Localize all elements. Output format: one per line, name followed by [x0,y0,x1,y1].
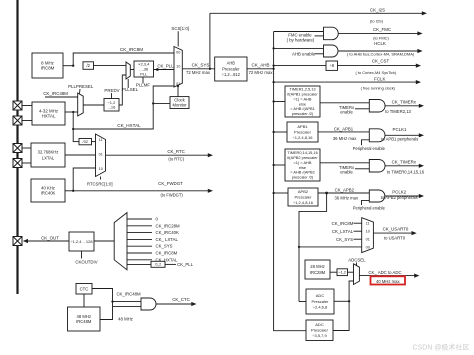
svg-text:CK_FMC: CK_FMC [373,27,391,32]
wire CKOUTDIV tick [81,251,83,259]
svg-text:CK_LXTAL: CK_LXTAL [332,229,354,234]
oscillator IRC8M 8 MHz [32,53,63,78]
svg-text:(to RTC): (to RTC) [168,157,184,162]
svg-text:Monitor: Monitor [173,102,188,107]
pad CK_OUT pin [13,237,22,246]
divider CKOUTDIV [69,232,94,251]
wire left pin bus [16,0,18,294]
svg-text:CK_APB2: CK_APB2 [335,187,355,192]
wire pad to HXTAL 1 [21,105,32,107]
wire CTC loop [92,289,113,320]
wire IRC40K out [65,190,73,192]
wire div to ADC mux [348,271,354,273]
gate AND APB1 [369,129,385,142]
node APB1 tap [272,131,274,133]
wire HCLK [338,50,419,52]
svg-text:Prescaler: Prescaler [295,194,313,199]
wire LXTAL out [65,154,96,156]
pad OSCOUT (HXTAL) [13,116,22,125]
svg-text:00: 00 [366,246,370,250]
svg-text:CK_HXTAL: CK_HXTAL [117,123,141,128]
mux ADCSEL [354,264,360,285]
svg-text:11: 11 [99,138,103,142]
wire pad to LXTAL 1 [21,147,31,149]
svg-text:32.768KHz: 32.768KHz [38,150,59,155]
svg-text:Prescaler: Prescaler [222,66,240,71]
pad OSCIN (HXTAL) [13,101,22,110]
svg-text:CK_IRC8M: CK_IRC8M [120,47,143,52]
svg-text:PCLK2: PCLK2 [392,189,406,194]
svg-text:to TIMER0,14,15,16: to TIMER0,14,15,16 [387,169,425,174]
svg-text:enable: enable [340,170,353,175]
wire irc48m gate stub2 [113,305,142,307]
node CK_APB2 junction [325,192,328,195]
wire clock monitor left link [153,102,170,104]
svg-text:AHB: AHB [227,61,236,66]
divider /32 [79,139,92,145]
mux PLLPRESEL [78,93,84,116]
svg-text:CK_FWDGT: CK_FWDGT [158,181,183,186]
svg-text:HXTAL: HXTAL [42,114,56,119]
wire ADC presc riser [349,281,353,301]
svg-text:to TIMER2,13: to TIMER2,13 [385,109,411,114]
oscillator LXTAL 32.768KHz [31,143,65,167]
svg-text:ADC: ADC [315,322,324,327]
svg-text:÷1,2,4,8,16: ÷1,2,4,8,16 [293,135,314,140]
oscillator IRC48M 48 MHz [68,307,101,331]
wire CK_I2S riser [209,13,211,69]
mux RTCSRC [96,134,106,177]
svg-text:10: 10 [99,167,103,171]
wire bus to div8 [274,65,326,67]
svg-text:LXTAL: LXTAL [42,155,55,160]
svg-text:SCS[1:0]: SCS[1:0] [171,26,189,31]
wire CK_FWDGT [73,190,209,192]
node HXTAL junction [72,111,74,113]
wire FCLK [274,81,417,83]
divider ADC Prescaler /2,4,6,8 [306,289,334,314]
svg-text:IRC8M: IRC8M [41,66,55,71]
svg-text:01: 01 [366,238,370,242]
highlight 40 MHz max [371,276,406,284]
svg-text:/32: /32 [83,139,88,144]
svg-text:CK_SYS: CK_SYS [336,237,353,242]
wire ckout stub CK_SYS [127,245,152,247]
svg-text:Peripheral enable: Peripheral enable [353,205,386,210]
wire stub usart 10 [354,230,362,232]
svg-text:÷1,2,4 .. 128: ÷1,2,4 .. 128 [70,239,93,244]
svg-text:CKOUTDIV: CKOUTDIV [75,260,97,265]
wire ckout stub CK_ LXTAL [127,238,152,240]
wire bus to TIMER1 logic [274,101,285,103]
svg-text:11: 11 [366,222,370,226]
svg-text:to APB1 peripherals: to APB1 peripherals [381,137,418,142]
wire CK_TIMERx to TIMER0 [385,165,420,167]
wire CK_RTC [106,154,210,156]
svg-text:CK_SYS: CK_SYS [192,62,210,67]
wire RTCSRC tick [100,177,102,180]
svg-text:prescaler /2): prescaler /2) [292,175,314,180]
wire TIMERx enable stub [355,108,369,110]
mux CKOUTSEL [114,213,127,270]
wire ckout pll dash [165,263,176,265]
wire stub usart 01 [354,238,362,240]
svg-text:(to I2S): (to I2S) [370,18,384,23]
svg-text:PLLSEL: PLLSEL [122,87,139,92]
svg-text:PCLK1: PCLK1 [393,127,407,132]
wire /2 to PLLSEL [94,65,127,67]
svg-text:to USART0: to USART0 [384,236,406,241]
wire ckout stub CK_HXTAL [127,259,152,261]
svg-text:CK_I2S: CK_I2S [370,8,385,13]
svg-text:CK_APB1: CK_APB1 [334,127,354,132]
svg-text:CK_IRC48M: CK_IRC48M [43,91,68,96]
svg-text:FCLK: FCLK [374,76,385,81]
divider /1,2 ckout [151,261,165,267]
node CK_I2S tap [209,68,211,70]
svg-text:IRC48M: IRC48M [76,319,92,324]
pad OSC32OUT (LXTAL) [13,159,22,168]
svg-text:00: 00 [176,51,180,55]
divider /2 [83,62,94,70]
wire IRC40K to RTC mux [73,168,95,191]
wire ADC prescaler out [334,300,349,302]
node ADC presc junction [348,300,350,302]
svg-text:HCLK: HCLK [374,41,386,46]
node CK_PLL junction [156,68,159,71]
svg-text:CK_ ADC to ADC: CK_ ADC to ADC [368,270,401,275]
pll PLL multiplier [134,61,154,77]
svg-text:CK_CTC: CK_CTC [172,297,190,302]
svg-text:01: 01 [99,152,103,156]
svg-text:PLLPRESEL: PLLPRESEL [68,84,94,89]
wire AHB distribution bus [274,32,306,331]
wire APB2 to ADC prescaler [299,301,306,303]
svg-text:CSDN @极术社区: CSDN @极术社区 [413,343,470,352]
node CST tap [272,64,274,66]
svg-text:( by hardware): ( by hardware) [287,38,315,43]
svg-text:IRC40K: IRC40K [41,190,56,195]
node clock monitor tap [152,102,154,104]
svg-text:to APB2 peripherals: to APB2 peripherals [381,195,418,200]
wire CK_APB2 to USART mux [299,246,362,248]
wire bus to FMC gate [274,31,324,33]
node IRC8M junction [72,65,74,67]
wire bus to TIMER0 logic [274,164,285,166]
wire CTC to IRC48M [83,294,85,307]
svg-text:CK_IRC8M: CK_IRC8M [332,221,354,226]
wire peripheral enable APB2 [362,200,370,205]
wire /32 to RTC mux [92,141,96,143]
svg-text:÷1,2: ÷1,2 [338,270,346,275]
wire stub usart 11 [354,222,362,224]
svg-text:APB1: APB1 [297,124,308,129]
wire CK_OUT to pad [27,240,69,242]
wire CKOUT mux to div [94,240,114,242]
svg-text:APB2: APB2 [298,189,309,194]
wire HXTAL down branch [72,112,74,142]
mux SCS system clock switch [174,47,182,88]
wire HXTAL output [65,111,78,113]
svg-text:(to FMC): (to FMC) [373,35,389,40]
svg-text:IRC28M: IRC28M [310,270,326,275]
svg-text:÷3,5,7,9: ÷3,5,7,9 [312,333,327,338]
svg-text:01: 01 [176,82,180,86]
svg-text:÷1,2,4,8,16: ÷1,2,4,8,16 [293,200,314,205]
wire CK_CST [338,65,418,67]
svg-text:28 MHz: 28 MHz [310,264,324,269]
svg-text:enable: enable [340,109,353,114]
wire AHB enable stub [315,53,324,55]
svg-text:Prescaler: Prescaler [312,299,330,304]
wire CK_APB2 [318,192,369,194]
svg-text:Peripheral enable: Peripheral enable [353,146,386,151]
svg-text:..,16: ..,16 [108,104,117,109]
divider PREDV [104,99,119,112]
wire IRC28M to div [330,271,337,273]
wire CK_USART0 [373,232,412,234]
svg-text:CTC: CTC [80,286,89,291]
wire peripheral enable APB1 [362,140,370,146]
svg-text:40 MHz max: 40 MHz max [376,279,400,284]
wire CK_TIMERx to TIMER [385,105,420,107]
wire CK_CTC [156,303,193,305]
node mux input tap [177,85,179,87]
wire ckout stub CK_IRC40K [127,232,152,234]
svg-text:÷2,4,6,8: ÷2,4,6,8 [313,305,328,310]
wire PREDV to PLLSEL [119,75,126,105]
svg-text:72 MHz max: 72 MHz max [186,70,211,75]
oscillator HXTAL 4-32 MHz [32,102,65,125]
svg-text:CK_ LXTAL: CK_ LXTAL [156,237,179,242]
pad OSC32IN (LXTAL) [13,144,22,153]
mux USARTSEL [362,218,374,253]
svg-text:( to Cortex-M4 SysTick): ( to Cortex-M4 SysTick) [356,70,397,75]
mux PLLSEL [126,62,130,79]
svg-text:/1,2: /1,2 [155,262,162,267]
wire CK_IRC48M to gate [113,301,142,303]
wire pad to HXTAL 2 [21,120,32,122]
wire CK_IRC8M riser [73,53,174,66]
svg-text:CK_IRC48M: CK_IRC48M [116,292,141,297]
gate AND TIMER0 [369,160,385,173]
divider /1,2 ADC [337,269,348,276]
svg-text:10: 10 [176,64,180,68]
svg-text:( free running clock): ( free running clock) [361,86,396,91]
svg-text:÷1,2...512: ÷1,2...512 [222,72,241,77]
svg-text:CK_PLL: CK_PLL [157,63,174,68]
node CK_HXTAL branch [72,128,74,130]
block CTC [76,284,92,295]
svg-text:CK_PLL: CK_PLL [177,262,194,267]
gate AND AHB [324,45,339,57]
svg-text:CK_IRC8M: CK_IRC8M [156,251,178,256]
wire PLLPRESEL select tick [79,89,82,94]
wire clock monitor top link [177,86,179,97]
wire ckout stub CK_IRC8M [127,252,152,254]
node FCLK tap [272,81,274,83]
svg-text:CK_IRC40K: CK_IRC40K [156,230,180,235]
divider APB1 Prescaler [287,122,318,142]
wire CK_PLL [154,69,175,71]
svg-text:AHB enable: AHB enable [292,51,316,56]
wire bus to AHB gate [274,47,324,49]
svg-text:Prescaler: Prescaler [311,328,329,333]
gate AND TIMER1 [369,100,385,113]
wire ckout stub 0 [127,218,152,220]
divider AHB Prescaler [215,57,247,81]
wire PLLMF tick [142,77,144,84]
block TIMER1,2,5,13 clock logic [285,86,320,117]
divider APB2 Prescaler [288,188,318,206]
svg-text:48 MHz: 48 MHz [118,316,133,321]
svg-text:CK_SYS: CK_SYS [156,244,173,249]
svg-text:CK_AHB: CK_AHB [251,62,269,67]
wire CK_HXTAL run [73,86,174,129]
clock monitor [170,97,189,109]
node AHB enable tap [272,47,274,49]
wire TIMER0 logic to gate [320,162,369,164]
wire FMC enable stub [315,35,324,37]
svg-text:CK_USART0: CK_USART0 [383,227,409,232]
wire TIMER1 logic to gate [320,102,369,104]
wire bus to APB1 prescaler [274,131,287,133]
svg-text:10: 10 [366,230,370,234]
node APB2 tap [272,192,274,194]
wire IRC8M output [63,65,73,67]
wire PLLPRESEL to PREDV [83,104,104,106]
block TIMER0,14,15,16 clock logic [285,149,320,181]
svg-text:RTCSRC[1:0]: RTCSRC[1:0] [87,181,113,186]
wire ADC prescaler2 out [333,301,349,330]
svg-text:prescaler /2): prescaler /2) [292,111,314,116]
svg-text:CK_RTC: CK_RTC [167,149,185,154]
wire PREDV tick [111,93,113,99]
wire bus to APB2 prescaler [274,192,288,194]
svg-text:CK_TIMERx: CK_TIMERx [392,99,417,104]
divider /8 [326,61,338,70]
wire CK_I2S to I2S [210,12,423,14]
divider ADC Prescaler /3,5,7,9 [306,320,333,341]
svg-text:72 MHz max: 72 MHz max [248,70,273,75]
svg-text:36 MHz max: 36 MHz max [335,196,359,201]
node TIMER0 tap [272,164,274,166]
wire TIMERx enable stub 2 [355,168,369,170]
wire /32 in [73,141,79,143]
svg-text:( to AHB bus,Cortex-M4, SRAM,D: ( to AHB bus,Cortex-M4, SRAM,DMA) [347,52,415,57]
wire ADCSEL tick [356,263,358,267]
node IRC40K junction [72,190,74,192]
wire ckout stub CK_PLL [127,263,151,265]
oscillator IRC40K 40 KHz [31,179,65,202]
svg-text:÷8: ÷8 [329,63,334,68]
wire CK_SYS [182,68,214,70]
wire CK_IRC48M stub [45,96,78,98]
wire pad to LXTAL 2 [21,162,31,164]
svg-text:CK_TIMERx: CK_TIMERx [392,159,417,164]
wire PLLSEL tick [127,79,129,88]
svg-text:CK_OUT: CK_OUT [41,236,59,241]
wire SCS select tick [177,31,179,46]
wire CK_ADC [359,275,415,277]
svg-text:36 MHz max: 36 MHz max [333,136,357,141]
svg-text:CK_IRC28M: CK_IRC28M [156,223,181,228]
svg-text:(to FWDGT): (to FWDGT) [160,192,183,197]
wire PLLSEL to PLL [130,69,134,71]
wire CK_FMC to FMC [338,32,418,34]
wire ckout stub CK_IRC28M [127,225,152,227]
gate AND APB2 [369,190,385,202]
node TIMER1 tap [272,100,274,102]
gate AND FMC [324,27,339,40]
wire CK_APB1 [318,131,369,133]
oscillator IRC28M 28 MHz [305,260,330,279]
svg-text:ADCSEL: ADCSEL [348,258,366,263]
svg-text:Prescaler: Prescaler [294,129,312,134]
svg-text:PLL: PLL [140,71,148,76]
wire PCLK1 [385,134,420,136]
wire CK_APB2 dogleg riser [299,193,327,302]
gate AND CTC [141,298,156,310]
svg-text:ADC: ADC [316,293,325,298]
svg-text:CK_CST: CK_CST [372,59,390,64]
wire PCLK2 [385,195,420,197]
node CK_IRC48M junction [111,300,113,302]
wire CK_AHB [247,68,274,70]
node USART tap [298,246,300,248]
svg-text:PREDV: PREDV [104,88,119,93]
node bus main [272,68,274,70]
